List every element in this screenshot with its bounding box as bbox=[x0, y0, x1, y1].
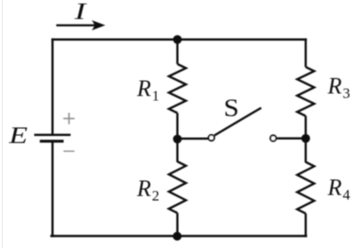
wire: right branch top (top wire to R3) bbox=[305, 38, 307, 67]
wire: left vertical upper (battery top to top wire) bbox=[51, 38, 53, 134]
wire: R1 bottom to node B bbox=[176, 113, 178, 140]
wire: R3 bottom to node C bbox=[305, 116, 307, 140]
current arrow for I bbox=[56, 20, 105, 30]
wire: node B to switch left terminal bbox=[177, 138, 208, 140]
battery E long plate (+) bbox=[34, 134, 70, 136]
svg-text:E: E bbox=[8, 123, 28, 148]
wire: switch right terminal to node C bbox=[277, 137, 306, 139]
battery minus sign bbox=[64, 150, 75, 152]
wire: top horizontal from battery branch to right branch bbox=[51, 38, 306, 40]
resistor R3 bbox=[297, 67, 314, 116]
junction node A (top) bbox=[173, 35, 182, 44]
resistor R1 bbox=[169, 64, 186, 113]
junction node C (right mid) bbox=[301, 134, 310, 143]
resistor R4 bbox=[297, 162, 314, 214]
wire: node C to R4 top bbox=[305, 138, 307, 163]
wire: R4 bottom to bottom wire bbox=[305, 214, 307, 238]
switch S blade bbox=[214, 108, 261, 136]
svg-text:I: I bbox=[73, 0, 87, 24]
wire: bottom horizontal bbox=[50, 235, 307, 237]
resistor R2 bbox=[169, 162, 186, 214]
wire: left vertical lower (battery bottom to bottom wire) bbox=[51, 142, 53, 237]
switch right open terminal bbox=[270, 135, 276, 141]
junction node bottom bbox=[173, 232, 182, 241]
svg-text:S: S bbox=[224, 95, 239, 122]
junction node B (left mid) bbox=[173, 135, 182, 144]
wire: R2 bottom to bottom node bbox=[176, 213, 178, 237]
switch left open terminal bbox=[209, 135, 215, 141]
battery E short plate (-) bbox=[40, 140, 64, 143]
wire: middle branch top (node A to R1) bbox=[176, 40, 178, 65]
battery plus sign bbox=[63, 113, 74, 124]
wire: node B to R2 top bbox=[176, 138, 178, 162]
